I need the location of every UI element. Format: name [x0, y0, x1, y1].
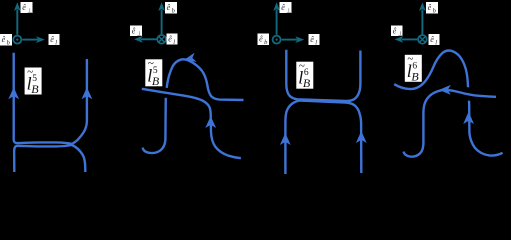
frame origin ring (e_b out of page): [13, 36, 21, 44]
svg-text:l: l: [435, 39, 437, 46]
label box e_l P2: [167, 34, 178, 46]
svg-text:ê: ê: [168, 35, 172, 44]
frame origin cross P4: [420, 37, 426, 43]
axes frame icon P3: [273, 10, 298, 44]
axes frame icon P1: [13, 10, 38, 44]
frame arrowhead up e_b: [158, 2, 165, 11]
frame vertical axis e_perp: [16, 10, 18, 35]
strand top cup P3: [286, 50, 360, 101]
frame horizontal axis e_l: [22, 39, 38, 41]
svg-text:ê: ê: [281, 3, 285, 12]
svg-text:ê: ê: [50, 35, 54, 44]
frame arrowhead up e_perp P3: [273, 2, 280, 11]
svg-text:ê: ê: [22, 3, 26, 12]
label box e_b P1: [0, 34, 12, 46]
strand U (left vertical + bottom + right vertical) P1: [14, 53, 87, 144]
arrow left on bell top P2: [184, 53, 196, 62]
axes frame icon P4: [402, 10, 423, 40]
frame origin cross: [159, 36, 165, 42]
strand B long line P2: [142, 89, 241, 158]
svg-text:⊥: ⊥: [137, 31, 142, 38]
label box e_b P2: [165, 2, 177, 14]
label box l~5_B P2: [145, 58, 162, 88]
svg-text:ê: ê: [2, 35, 6, 44]
arrow left on long line P4: [439, 85, 451, 95]
arrow up on strand B P2: [205, 116, 216, 128]
arrow up on left vertical P1: [8, 87, 19, 99]
label box e_b P3: [258, 34, 270, 46]
svg-text:l: l: [315, 39, 317, 46]
strand lower arch P1: [14, 145, 85, 172]
frame origin ring (e_b out of page): [273, 36, 281, 44]
strand bottom pair P3: [285, 101, 361, 175]
svg-text:ê: ê: [167, 3, 171, 12]
frame origin dot P3: [276, 39, 278, 41]
frame arrowhead left e_perp: [134, 36, 143, 43]
label box l~5_B P1: [25, 66, 42, 96]
svg-text:B: B: [152, 74, 160, 88]
arrow up on right bottom vertical P3: [356, 131, 367, 143]
svg-text:⊥: ⊥: [286, 7, 291, 14]
svg-text:ê: ê: [132, 26, 136, 35]
frame arrowhead up e_b P4: [419, 2, 426, 11]
frame arrowhead right e_l: [36, 36, 45, 43]
arrow up on left bottom vertical P3: [280, 133, 291, 145]
label box e_l P1: [49, 34, 60, 46]
svg-text:ê: ê: [428, 3, 432, 12]
svg-text:l: l: [55, 39, 57, 46]
svg-text:ê: ê: [259, 35, 263, 44]
svg-text:l: l: [173, 39, 175, 46]
frame horizontal axis e_l: [282, 39, 298, 41]
halo of over-crossing P2: [156, 91, 179, 95]
arrow up on right vertical P1: [82, 87, 93, 99]
label box e_perp P3: [280, 2, 292, 14]
svg-text:B: B: [303, 76, 311, 90]
label box l~6_B P4 (over curves): [405, 53, 422, 83]
arrow up on bell right arm P4: [463, 112, 474, 124]
halo of over-crossing P4: [458, 92, 478, 95]
strand B hook + long line P4: [404, 90, 497, 157]
svg-text:B: B: [411, 69, 419, 83]
svg-text:⊥: ⊥: [27, 7, 32, 14]
label box e_l P4: [429, 34, 440, 46]
frame origin disc (e_l into page) P4: [418, 35, 427, 44]
label box e_perp P1: [21, 2, 33, 14]
frame arrowhead up e_perp: [14, 2, 21, 11]
svg-text:⊥: ⊥: [398, 31, 403, 38]
axes frame icon P2: [141, 10, 162, 40]
frame origin disc (e_l into page): [157, 35, 166, 44]
frame horizontal axis e_perp (left): [141, 38, 157, 40]
frame origin dot: [16, 39, 18, 41]
frame arrowhead left e_perp P4: [395, 36, 404, 43]
label box e_perp P4: [391, 26, 403, 38]
frame vertical axis e_perp: [276, 10, 278, 35]
frame vertical axis e_b: [161, 10, 163, 35]
svg-text:B: B: [31, 82, 39, 96]
label box l~6_B P3: [296, 60, 313, 90]
strand A bell loop P4: [394, 50, 502, 155]
label box e_perp P2: [130, 26, 142, 38]
frame vertical axis e_b: [421, 10, 423, 35]
label box e_l P3: [309, 34, 320, 46]
label box e_b P4: [426, 2, 438, 14]
svg-text:ê: ê: [393, 26, 397, 35]
strand A bell loop P2: [143, 59, 244, 153]
frame arrowhead right e_l P3: [295, 36, 304, 43]
svg-text:ê: ê: [310, 35, 314, 44]
frame horizontal axis e_perp (left): [402, 38, 418, 40]
svg-text:ê: ê: [430, 35, 434, 44]
